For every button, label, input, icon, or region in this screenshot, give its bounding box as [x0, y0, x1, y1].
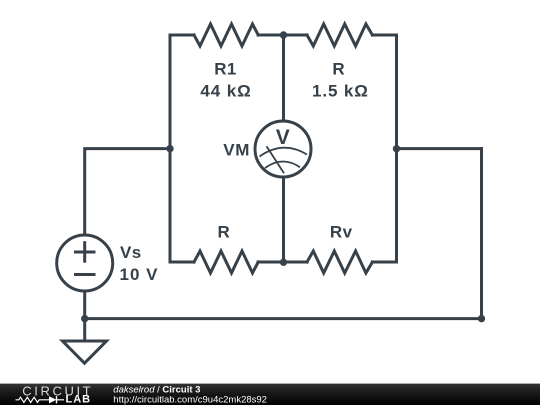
wire voltmeter top lead	[282, 35, 285, 121]
wire Vs bottom lead	[83, 291, 86, 319]
node dot top center	[280, 31, 287, 38]
svg-text:http://circuitlab.com/c9u4c2mk: http://circuitlab.com/c9u4c2mk28s92	[113, 394, 267, 405]
svg-text:Vs: Vs	[120, 243, 142, 262]
resistor R (top right, 1.5 k)	[307, 24, 372, 46]
voltmeter needle	[267, 146, 285, 173]
resistor R (bottom left)	[194, 251, 258, 273]
wire voltmeter bottom lead	[282, 178, 285, 263]
svg-text:1.5 kΩ: 1.5 kΩ	[312, 82, 369, 101]
resistor R1	[194, 24, 258, 46]
svg-text:Rv: Rv	[330, 223, 353, 242]
resistor Rv	[307, 251, 372, 273]
node dot left at Vs level	[166, 145, 173, 152]
wire bottom rail middle segment	[258, 261, 307, 264]
svg-text:10 V: 10 V	[120, 265, 159, 284]
wire far right vertical	[480, 149, 483, 319]
wire from Vs top to left node	[85, 149, 170, 235]
node dot bottom center	[280, 259, 287, 266]
wire right output horizontal	[397, 147, 482, 150]
wire bottom return	[85, 317, 482, 320]
svg-text:VM: VM	[223, 141, 250, 160]
svg-text:V: V	[276, 126, 290, 149]
voltmeter scale upper arc	[260, 148, 308, 157]
voltage source Vs circle	[57, 235, 113, 291]
node dot bottom right corner	[478, 315, 485, 322]
wire bottom rail left segment	[170, 261, 194, 264]
wire top rail left segment	[170, 34, 194, 37]
ground symbol	[63, 341, 107, 363]
voltmeter VM circle	[255, 121, 311, 177]
svg-text:R: R	[217, 223, 230, 242]
voltage source Vs minus sign	[76, 273, 95, 276]
voltage source Vs plus sign	[75, 251, 94, 254]
footer logo squiggle wire with resistor	[16, 397, 50, 402]
svg-text:R1: R1	[214, 60, 237, 79]
wire top rail middle segment	[258, 34, 307, 37]
node dot right output	[393, 145, 400, 152]
voltmeter scale lower arc	[265, 161, 300, 168]
wire right vertical of bridge	[395, 35, 398, 262]
svg-text:R: R	[332, 60, 345, 79]
svg-text:44 kΩ: 44 kΩ	[200, 82, 251, 101]
wire left vertical of bridge	[169, 35, 172, 262]
node dot ground junction	[81, 315, 88, 322]
wire top rail right segment	[372, 34, 396, 37]
wire bottom rail right segment	[372, 261, 396, 264]
wire ground lead	[83, 319, 86, 341]
footer logo diode symbol	[49, 396, 57, 403]
svg-text:LAB: LAB	[66, 394, 92, 406]
footer bar	[0, 384, 540, 405]
